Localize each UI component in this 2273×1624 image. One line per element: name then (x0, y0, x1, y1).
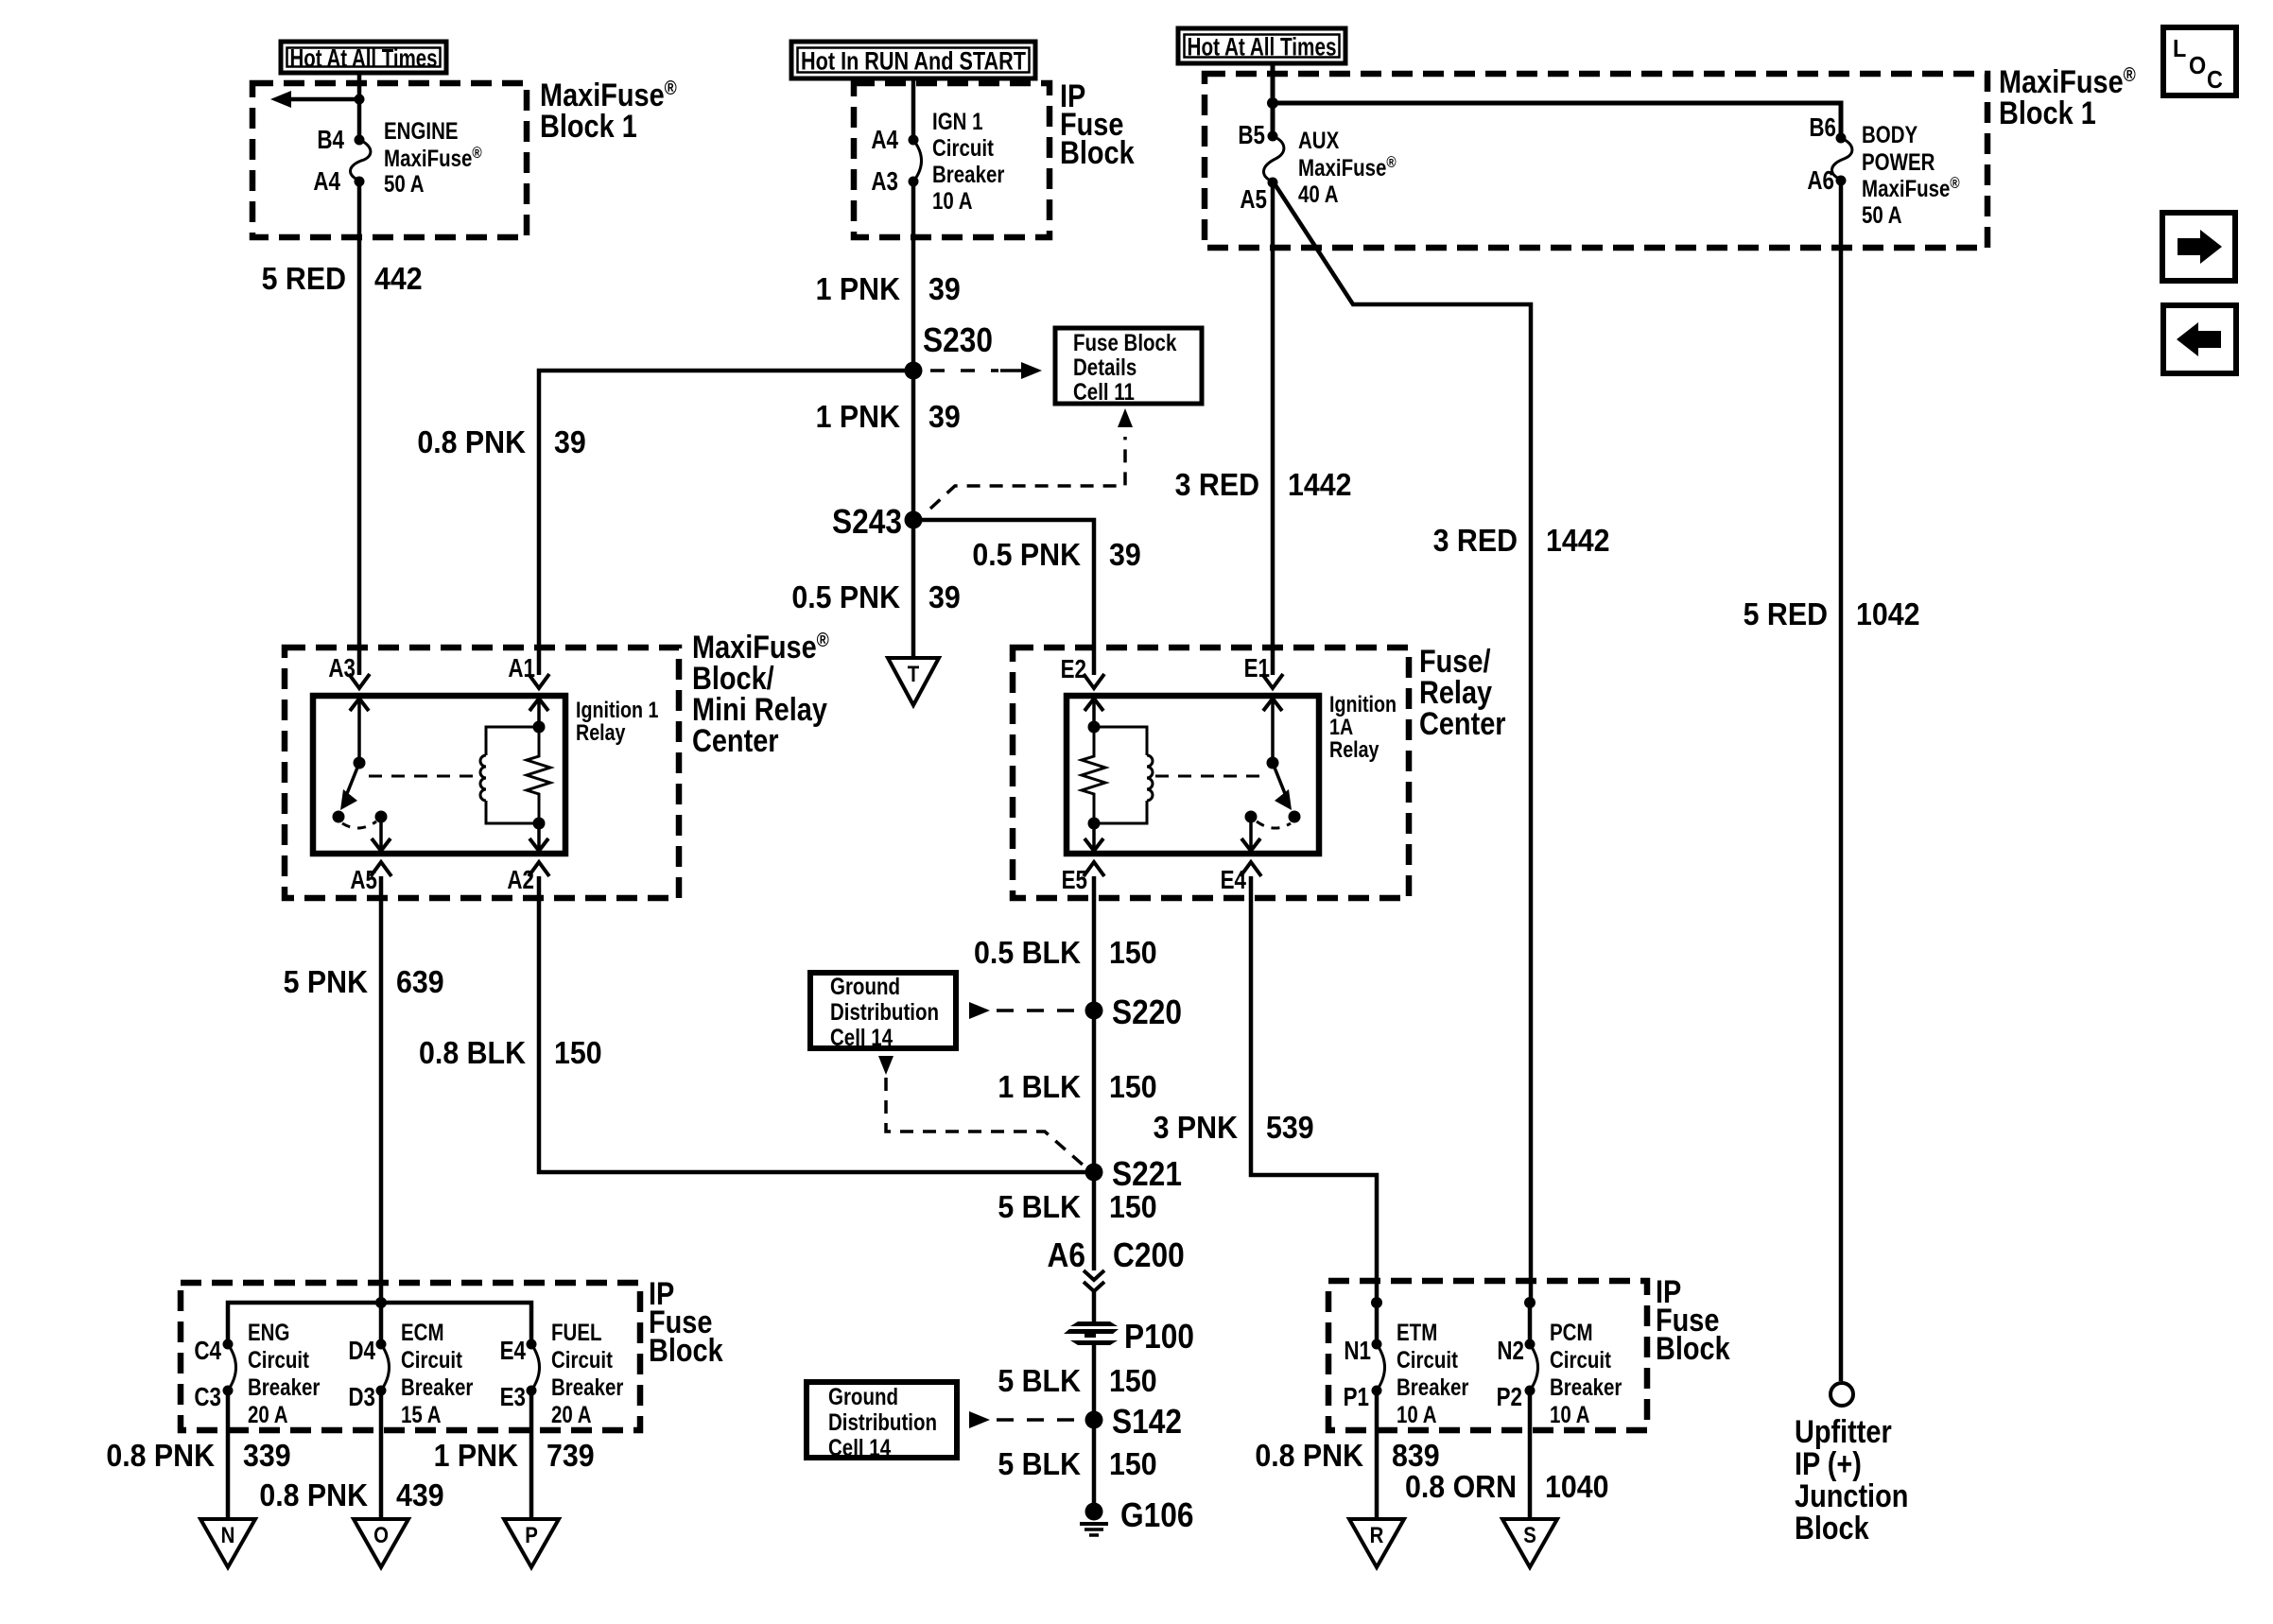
svg-text:439: 439 (396, 1477, 444, 1512)
relay coil output wire A2 (537, 823, 541, 854)
svg-text:Breaker: Breaker (1550, 1373, 1622, 1400)
svg-text:BODY: BODY (1862, 121, 1917, 147)
svg-text:5 BLK: 5 BLK (998, 1189, 1081, 1224)
junction dot on ETM feed (1371, 1297, 1382, 1308)
bus junction dot (375, 1297, 387, 1308)
svg-text:Circuit: Circuit (1550, 1346, 1611, 1373)
relay output wire E4 (1249, 817, 1253, 854)
svg-text:E5: E5 (1062, 866, 1087, 895)
power label box: Hot In RUN And START (791, 42, 1035, 78)
svg-text:P1: P1 (1344, 1383, 1369, 1412)
relay coil input wire A1 (537, 696, 541, 727)
svg-text:150: 150 (1109, 1189, 1157, 1224)
ground G106 (1085, 1503, 1103, 1521)
breaker: FUEL Circuit Breaker 20 A (E4-E3) (531, 1344, 540, 1391)
relay switch contact dot (NO) (333, 811, 345, 823)
relay output wire A5 (379, 817, 383, 854)
svg-text:T: T (908, 661, 920, 686)
relay coil bottom dot (right relay) (1088, 818, 1101, 830)
svg-text:739: 739 (547, 1438, 595, 1473)
svg-text:PCM: PCM (1550, 1319, 1593, 1345)
reference box Ground Distribution Cell 14 (upper) (810, 973, 956, 1048)
wire 0.8 PNK 839 (P1 to R) (1375, 1391, 1379, 1519)
relay switch fixed contact dot (375, 811, 388, 823)
svg-text:3 RED: 3 RED (1175, 467, 1259, 502)
svg-text:Block 1: Block 1 (540, 108, 637, 145)
svg-text:Block: Block (1795, 1510, 1869, 1546)
wire 5 PNK 639 (relay A5 down to bus) (379, 876, 384, 1303)
svg-text:P: P (525, 1522, 538, 1547)
svg-text:P2: P2 (1497, 1383, 1522, 1412)
svg-text:N2: N2 (1497, 1337, 1524, 1366)
svg-text:C: C (2207, 67, 2223, 94)
svg-text:AUX: AUX (1298, 127, 1340, 153)
in-line connector C200 (double chevron) (1084, 1270, 1104, 1280)
svg-text:39: 39 (1109, 537, 1141, 572)
page icon arrow left (2163, 305, 2236, 373)
svg-text:B4: B4 (317, 126, 344, 155)
reference box Ground Distribution Cell 14 (lower) (807, 1382, 957, 1458)
svg-text:10 A: 10 A (932, 187, 973, 214)
svg-text:O: O (2189, 53, 2206, 79)
wire bus to D4 (379, 1303, 384, 1344)
svg-text:50 A: 50 A (1862, 201, 1902, 228)
dashed pointer S243 to Fuse Block Details (930, 437, 1125, 509)
junction dot on PCM feed (1524, 1297, 1536, 1308)
svg-text:MaxiFuse®: MaxiFuse® (1298, 154, 1397, 181)
svg-text:Circuit: Circuit (401, 1346, 462, 1373)
junction dot on feed wire (355, 95, 365, 105)
svg-text:1040: 1040 (1545, 1469, 1609, 1504)
svg-text:Hot At All Times: Hot At All Times (290, 44, 438, 73)
svg-text:Details: Details (1073, 354, 1136, 380)
wire from S230 left then down to relay A1 (0.8 PNK 39) (539, 371, 913, 675)
relay switch blade with arrow (right) (1273, 763, 1286, 796)
svg-text:39: 39 (554, 424, 586, 459)
wire 0.8 PNK 339 (C3 to N) (226, 1391, 231, 1519)
dashed pointer S230 to Fuse Block Details (930, 369, 998, 372)
svg-text:Cell 14: Cell 14 (830, 1024, 893, 1050)
bus bar in IP fuse block (228, 1303, 531, 1344)
relay switch contact dot (right NO) (1289, 811, 1301, 823)
wire 1 PNK 739 (E3 to P) (529, 1391, 534, 1519)
svg-text:S142: S142 (1112, 1403, 1182, 1441)
breaker: IGN 1 Circuit Breaker 10 A (A4-A3) (913, 140, 922, 181)
svg-text:E4: E4 (1221, 866, 1246, 895)
dashed box: MaxiFuse Block 1 (left) (252, 83, 527, 237)
svg-text:Relay: Relay (576, 719, 626, 745)
wire 5 BLK 150 (P100 to S142) (1092, 1342, 1097, 1420)
wire diagonal from A5 to PCM feed (1275, 185, 1531, 1303)
svg-text:Circuit: Circuit (1397, 1346, 1458, 1373)
wire to N1 (1375, 1303, 1379, 1344)
relay switch dashed travel arc (342, 821, 376, 828)
svg-text:A3: A3 (328, 654, 356, 683)
wire branch to BODY POWER fuse B6 (1273, 103, 1841, 138)
svg-text:Cell 11: Cell 11 (1073, 378, 1135, 405)
relay switch pivot dot (354, 757, 366, 769)
svg-text:Cell 14: Cell 14 (828, 1434, 891, 1460)
svg-text:A6: A6 (1807, 166, 1834, 196)
relay box: Ignition 1A Relay (1067, 696, 1319, 854)
wire 5 RED 1042 (A6 down to upfitter) (1839, 181, 1844, 1381)
svg-text:O: O (373, 1522, 389, 1547)
connector triangle T (888, 658, 939, 705)
svg-text:Block: Block (1060, 134, 1135, 171)
svg-text:D4: D4 (348, 1337, 375, 1366)
svg-text:0.8 PNK: 0.8 PNK (417, 424, 526, 459)
wire from Hot At All Times down to B5 (1271, 63, 1275, 136)
wire C200 to P100 (1092, 1291, 1097, 1322)
relay coil loop (right) (1094, 727, 1147, 755)
svg-text:Breaker: Breaker (401, 1373, 473, 1400)
connector triangle S (1502, 1519, 1557, 1567)
splice S230 (905, 362, 923, 380)
svg-text:3 PNK: 3 PNK (1154, 1110, 1238, 1145)
connector chevron E4 (1241, 862, 1261, 876)
splice S220 (1085, 1002, 1103, 1020)
svg-text:C200: C200 (1113, 1236, 1185, 1274)
svg-text:1442: 1442 (1288, 467, 1352, 502)
svg-text:0.8 BLK: 0.8 BLK (419, 1035, 526, 1070)
connector triangle R (1349, 1519, 1404, 1567)
svg-text:A6: A6 (1048, 1236, 1085, 1274)
svg-text:1 PNK: 1 PNK (816, 271, 900, 306)
svg-text:E4: E4 (500, 1337, 526, 1366)
dashed box: IP Fuse Block (bottom right) (1328, 1281, 1647, 1430)
svg-text:S221: S221 (1112, 1155, 1182, 1193)
svg-text:20 A: 20 A (551, 1401, 592, 1427)
svg-text:5 PNK: 5 PNK (284, 964, 368, 999)
svg-text:5 BLK: 5 BLK (998, 1363, 1081, 1398)
connector chevron E2 (1084, 674, 1104, 688)
svg-text:ENGINE: ENGINE (384, 117, 459, 144)
svg-text:S: S (1523, 1522, 1536, 1547)
fuse: AUX MaxiFuse 40 A (B5-A5) (1263, 136, 1283, 182)
svg-text:S230: S230 (923, 321, 993, 359)
svg-text:1042: 1042 (1856, 596, 1920, 631)
svg-text:POWER: POWER (1862, 148, 1935, 175)
svg-text:IP (+): IP (+) (1795, 1445, 1862, 1482)
relay armature dashed link (left) (369, 775, 477, 778)
power label box: Hot At All Times (right) (1178, 28, 1345, 63)
wire from relay A2 down and right to S221 (0.8 BLK 150) (539, 876, 1094, 1172)
connector chevron A2 (529, 862, 549, 876)
connector triangle N (200, 1519, 255, 1567)
svg-text:50 A: 50 A (384, 170, 425, 197)
svg-text:39: 39 (928, 271, 961, 306)
svg-text:Breaker: Breaker (248, 1373, 320, 1400)
junction dot on right feed (1267, 97, 1278, 109)
svg-text:0.8 ORN: 0.8 ORN (1405, 1469, 1517, 1504)
svg-text:S243: S243 (832, 503, 902, 541)
svg-text:Breaker: Breaker (932, 161, 1004, 187)
svg-text:339: 339 (243, 1438, 291, 1473)
power label box: Hot At All Times (left) (281, 42, 446, 73)
relay switch dashed travel arc (right) (1257, 821, 1291, 828)
relay box: Ignition 1 Relay (313, 696, 565, 854)
svg-text:539: 539 (1266, 1110, 1314, 1145)
svg-text:40 A: 40 A (1298, 181, 1339, 207)
svg-text:20 A: 20 A (248, 1401, 288, 1427)
splice S243 (905, 511, 923, 529)
svg-text:5 RED: 5 RED (262, 261, 346, 296)
svg-text:Hot In RUN And START: Hot In RUN And START (801, 47, 1026, 76)
svg-text:Center: Center (1419, 705, 1506, 742)
svg-text:D3: D3 (348, 1383, 375, 1412)
relay coil top dot (right relay) (1088, 721, 1101, 734)
wire 1 PNK 39 (A3 to S230) (911, 181, 916, 371)
svg-text:Relay: Relay (1329, 736, 1379, 762)
relay resistor (right) (1082, 727, 1105, 823)
svg-text:0.5 BLK: 0.5 BLK (974, 935, 1081, 970)
svg-text:Breaker: Breaker (551, 1373, 623, 1400)
svg-text:A3: A3 (871, 167, 898, 197)
wire from Hot In RUN And START to A4 (911, 78, 916, 140)
svg-text:1 PNK: 1 PNK (434, 1438, 518, 1473)
svg-text:1 BLK: 1 BLK (998, 1069, 1081, 1104)
svg-text:39: 39 (928, 399, 961, 434)
svg-text:Fuse Block: Fuse Block (1073, 329, 1177, 355)
wire 0.5 PNK 39 (S243 right to relay E2) (913, 520, 1094, 675)
grommet P100 (1070, 1322, 1118, 1326)
svg-text:0.5 PNK: 0.5 PNK (791, 579, 900, 614)
wire 1 PNK 39 (S230 to S243) (911, 371, 916, 520)
svg-text:39: 39 (928, 579, 961, 614)
relay resistor (left) (527, 727, 550, 823)
wire from Hot At All Times down to B4 (357, 73, 362, 140)
svg-text:639: 639 (396, 964, 444, 999)
svg-text:0.5 PNK: 0.5 PNK (972, 537, 1081, 572)
svg-text:G106: G106 (1120, 1496, 1193, 1534)
svg-text:Circuit: Circuit (932, 134, 994, 161)
relay switch pivot dot (right) (1267, 757, 1279, 769)
svg-text:E2: E2 (1061, 655, 1086, 684)
dashed pointer from Ground Distribution down to S221 (878, 1056, 894, 1075)
svg-text:A4: A4 (313, 167, 340, 197)
relay coil input wire E2 (1092, 696, 1096, 727)
svg-text:MaxiFuse®: MaxiFuse® (384, 145, 482, 172)
fuse: BODY POWER MaxiFuse 50 A (B6-A6) (1831, 138, 1851, 181)
dashed box: Fuse / Relay Center (1013, 648, 1409, 898)
wire 1 BLK 150 (S220 to S221) (1092, 1011, 1097, 1172)
dashed box: IP Fuse Block (bottom left) (181, 1283, 640, 1430)
relay switch blade with arrow (346, 763, 359, 796)
wire 3 PNK 539 (E4 down to ETM breaker) (1251, 876, 1377, 1303)
svg-text:E1: E1 (1244, 654, 1270, 683)
svg-text:839: 839 (1392, 1438, 1440, 1473)
svg-text:150: 150 (1109, 935, 1157, 970)
svg-text:Junction: Junction (1795, 1477, 1908, 1514)
relay coil bottom dot (533, 818, 546, 830)
reference box Fuse Block Details Cell 11 (1055, 328, 1202, 404)
connector chevron A3 (349, 674, 370, 688)
svg-text:5 RED: 5 RED (1744, 596, 1828, 631)
svg-text:P100: P100 (1124, 1318, 1194, 1356)
svg-text:5 BLK: 5 BLK (998, 1446, 1081, 1481)
svg-text:Distribution: Distribution (828, 1408, 937, 1435)
page icon arrow right (2162, 213, 2235, 281)
svg-text:C3: C3 (194, 1383, 221, 1412)
page icon LOC (2163, 27, 2236, 95)
relay coil output wire E5 (1092, 823, 1096, 854)
connector chevron A1 (529, 674, 549, 688)
svg-text:1442: 1442 (1546, 523, 1610, 558)
wire 3 RED 1442 (A5 down to relay E1) (1271, 182, 1275, 675)
relay coil top dot (533, 721, 546, 734)
svg-text:Hot At All Times: Hot At All Times (1188, 33, 1337, 61)
dashed box: MaxiFuse Block / Mini Relay Center (285, 648, 679, 898)
svg-text:Block 1: Block 1 (1999, 95, 2096, 131)
relay armature dashed link (right) (1155, 775, 1263, 778)
svg-text:0.8 PNK: 0.8 PNK (259, 1477, 368, 1512)
svg-text:10 A: 10 A (1550, 1401, 1590, 1427)
dashed pointer to S220 (969, 1002, 990, 1019)
svg-text:Circuit: Circuit (248, 1346, 309, 1373)
breaker: PCM Circuit Breaker 10 A (N2-P2) (1530, 1344, 1538, 1391)
svg-text:150: 150 (1109, 1446, 1157, 1481)
svg-text:Breaker: Breaker (1397, 1373, 1468, 1400)
breaker: ECM Circuit Breaker 15 A (D4-D3) (381, 1344, 390, 1391)
dashed pointer to S142 (969, 1411, 990, 1428)
svg-text:Circuit: Circuit (551, 1346, 613, 1373)
svg-text:10 A: 10 A (1397, 1401, 1437, 1427)
svg-text:E3: E3 (500, 1383, 526, 1412)
relay switch input wire A3 (357, 696, 361, 763)
wire 5 RED 442 (A4 down to relay A3) (357, 181, 362, 675)
svg-text:Ground: Ground (828, 1383, 898, 1409)
wire 0.8 PNK 439 (D3 to O) (379, 1391, 384, 1519)
svg-text:150: 150 (1109, 1069, 1157, 1104)
connector chevron A5 (371, 862, 391, 876)
svg-text:A2: A2 (507, 866, 534, 895)
svg-text:Ground: Ground (830, 973, 900, 999)
relay switch input wire E1 (1271, 696, 1275, 763)
splice S221 (1085, 1164, 1103, 1182)
svg-text:A1: A1 (508, 654, 535, 683)
svg-text:N: N (221, 1522, 235, 1547)
connector chevron E5 (1084, 862, 1104, 876)
svg-text:Upfitter: Upfitter (1795, 1413, 1892, 1450)
fuse: ENGINE MaxiFuse 50 A (B4-A4) (350, 140, 370, 181)
wire 5 BLK 150 (S142 to G106) (1092, 1420, 1097, 1511)
relay coil loop (left) (486, 727, 539, 755)
svg-text:0.8 PNK: 0.8 PNK (106, 1438, 215, 1473)
svg-text:FUEL: FUEL (551, 1319, 602, 1345)
svg-text:IGN 1: IGN 1 (932, 108, 983, 134)
svg-text:ECM: ECM (401, 1319, 444, 1345)
svg-text:A4: A4 (871, 126, 898, 155)
connector triangle O (354, 1519, 408, 1567)
svg-text:R: R (1370, 1522, 1384, 1547)
svg-text:S220: S220 (1112, 993, 1182, 1031)
svg-text:150: 150 (1109, 1363, 1157, 1398)
svg-text:B5: B5 (1238, 121, 1265, 150)
wire 0.5 BLK 150 (E5 to S220) (1092, 876, 1097, 1011)
connector triangle P (504, 1519, 559, 1567)
svg-text:MaxiFuse®: MaxiFuse® (1862, 175, 1960, 202)
svg-text:3 RED: 3 RED (1433, 523, 1518, 558)
svg-text:Block: Block (649, 1332, 723, 1369)
svg-text:ENG: ENG (248, 1319, 289, 1345)
breaker: ETM Circuit Breaker 10 A (N1-P1) (1377, 1344, 1385, 1391)
svg-text:0.8 PNK: 0.8 PNK (1255, 1438, 1363, 1473)
dashed box: IP Fuse Block (top) (854, 83, 1050, 237)
relay switch fixed contact dot (right) (1245, 811, 1258, 823)
wire 5 BLK 150 (S221 to C200) (1092, 1172, 1097, 1270)
svg-text:Center: Center (692, 722, 779, 759)
svg-text:442: 442 (374, 261, 423, 296)
connector chevron E1 (1262, 674, 1283, 688)
wire 0.5 PNK 39 (S243 down to T) (911, 520, 916, 658)
breaker: ENG Circuit Breaker 20 A (C4-C3) (228, 1344, 236, 1391)
svg-text:B6: B6 (1809, 113, 1836, 143)
svg-text:N1: N1 (1344, 1337, 1371, 1366)
svg-text:C4: C4 (194, 1337, 221, 1366)
wire to N2 (1528, 1303, 1533, 1344)
svg-text:ETM: ETM (1397, 1319, 1437, 1345)
svg-text:A5: A5 (350, 866, 377, 895)
wire 0.8 ORN 1040 (P2 to S) (1528, 1391, 1533, 1519)
terminal ring: Upfitter IP (+) Junction Block (1831, 1383, 1853, 1406)
svg-text:Distribution: Distribution (830, 998, 939, 1025)
svg-text:L: L (2173, 36, 2186, 62)
splice S142 (1085, 1411, 1103, 1429)
svg-text:1 PNK: 1 PNK (816, 399, 900, 434)
svg-text:A5: A5 (1240, 185, 1267, 215)
dashed box: MaxiFuse Block 1 (right) (1205, 74, 1987, 248)
svg-text:150: 150 (554, 1035, 602, 1070)
arrow to other circuits (left) (289, 97, 359, 102)
svg-text:Block: Block (1656, 1330, 1730, 1367)
svg-text:15 A: 15 A (401, 1401, 442, 1427)
